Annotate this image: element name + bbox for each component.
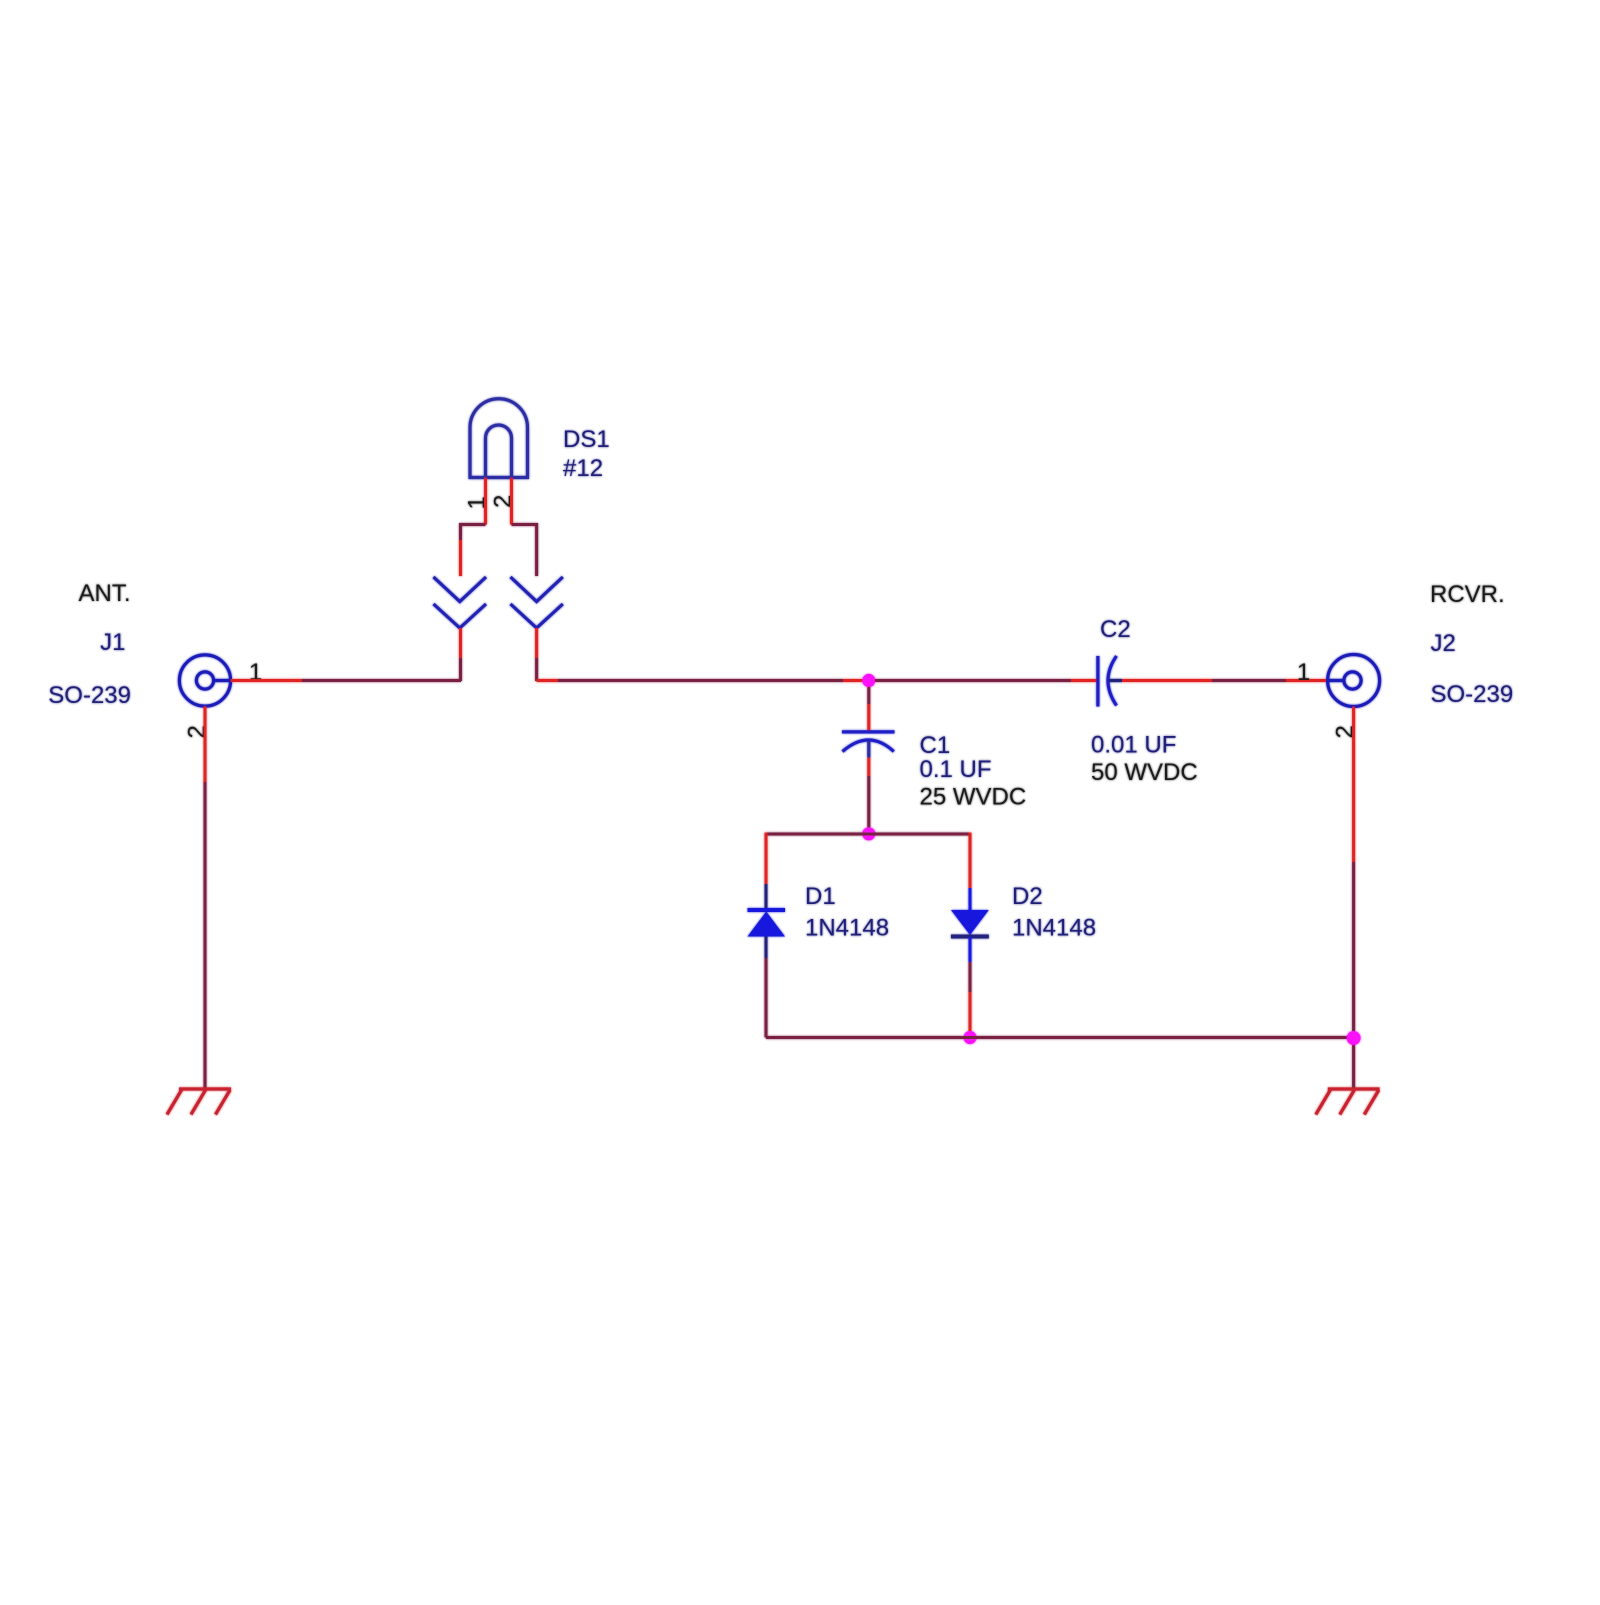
label 1N4148 D2 bbox=[1012, 915, 1096, 942]
capacitor C1 bbox=[842, 732, 895, 758]
ground right chassis bbox=[1316, 1089, 1380, 1115]
wire right leg down to D2 bbox=[969, 833, 972, 910]
svg-text:D1: D1 bbox=[805, 883, 836, 910]
svg-text:0.1 UF: 0.1 UF bbox=[920, 756, 992, 783]
svg-text:D2: D2 bbox=[1012, 883, 1043, 910]
label SO-239 J2 bbox=[1431, 681, 1514, 708]
node C junction dot bbox=[963, 1031, 976, 1044]
label C2 bbox=[1100, 616, 1131, 643]
node A junction dot bbox=[862, 674, 875, 687]
svg-text:50 WVDC: 50 WVDC bbox=[1091, 759, 1198, 786]
label SO-239 J1 bbox=[48, 682, 131, 709]
wire D2 to node C bbox=[969, 937, 972, 1038]
label 50 WVDC bbox=[1091, 759, 1198, 786]
label RCVR. bbox=[1430, 581, 1505, 608]
svg-text:RCVR.: RCVR. bbox=[1430, 581, 1505, 608]
wire top rail of diode loop bbox=[766, 833, 970, 836]
node D junction dot bbox=[1347, 1031, 1361, 1045]
label 0.01 UF bbox=[1091, 732, 1176, 759]
wire right chevron to main line bbox=[535, 628, 538, 681]
svg-text:#12: #12 bbox=[563, 455, 603, 482]
wire bottom rail bbox=[766, 1036, 1354, 1039]
svg-text:DS1: DS1 bbox=[563, 426, 610, 453]
label 1N4148 D1 bbox=[805, 915, 889, 942]
wire DS1 pin2 leg bbox=[512, 478, 537, 577]
svg-text:SO-239: SO-239 bbox=[48, 682, 131, 709]
label 25 WVDC bbox=[920, 784, 1027, 811]
label J2 bbox=[1431, 630, 1456, 657]
pin number 1 of DS1 bbox=[464, 496, 491, 509]
wire node A to C2 bbox=[875, 679, 1098, 682]
diode D1 bbox=[748, 910, 786, 937]
pin number 1 of J2 bbox=[1297, 659, 1310, 686]
diode D2 bbox=[951, 910, 989, 937]
lamp DS1 bbox=[470, 399, 528, 478]
svg-text:1N4148: 1N4148 bbox=[1012, 915, 1096, 942]
wire C1 to node B bbox=[867, 758, 870, 834]
svg-text:C2: C2 bbox=[1100, 616, 1131, 643]
node B junction dot bbox=[862, 827, 875, 840]
svg-text:C1: C1 bbox=[920, 732, 951, 759]
plug chevrons left leg bbox=[434, 577, 487, 628]
wire C2 to J2 bbox=[1122, 679, 1327, 682]
label C1 bbox=[920, 732, 951, 759]
label D1 bbox=[805, 883, 836, 910]
svg-text:ANT.: ANT. bbox=[78, 580, 130, 607]
wire left leg down to D1 bbox=[765, 833, 768, 908]
plug chevrons right leg bbox=[511, 577, 563, 628]
label ANT. bbox=[78, 580, 130, 607]
pin number 1 of J1 bbox=[249, 659, 262, 686]
connector J2 bbox=[1328, 655, 1380, 707]
svg-text:1: 1 bbox=[1297, 659, 1310, 686]
wire J1 pin1 to DS1 left leg bbox=[231, 679, 461, 682]
capacitor C2 bbox=[1098, 656, 1122, 707]
wire J2 pin2 to ground bbox=[1352, 707, 1355, 1090]
ground left chassis bbox=[167, 1089, 231, 1115]
svg-text:25 WVDC: 25 WVDC bbox=[920, 784, 1027, 811]
connector J1 bbox=[179, 655, 230, 706]
label DS1 bbox=[563, 426, 610, 453]
label D2 bbox=[1012, 883, 1043, 910]
label 0.1 UF bbox=[920, 756, 992, 783]
pin number 2 of J2 bbox=[1332, 725, 1359, 738]
wire DS1 right leg to node A bbox=[537, 679, 869, 682]
wire J1 pin2 down bbox=[204, 706, 207, 1089]
pin number 2 of J1 bbox=[184, 725, 211, 738]
pin number 2 of DS1 bbox=[490, 495, 517, 508]
wire DS1 pin1 leg bbox=[461, 478, 486, 577]
label #12 bbox=[563, 455, 603, 482]
svg-text:0.01 UF: 0.01 UF bbox=[1091, 732, 1176, 759]
svg-text:J2: J2 bbox=[1431, 630, 1456, 657]
wire D1 to bottom rail bbox=[765, 937, 768, 1038]
svg-text:J1: J1 bbox=[100, 629, 125, 656]
svg-text:SO-239: SO-239 bbox=[1431, 681, 1514, 708]
label J1 bbox=[100, 629, 125, 656]
wire node A to C1 bbox=[867, 687, 870, 731]
svg-text:1N4148: 1N4148 bbox=[805, 915, 889, 942]
wire left chevron to main line bbox=[459, 628, 462, 681]
